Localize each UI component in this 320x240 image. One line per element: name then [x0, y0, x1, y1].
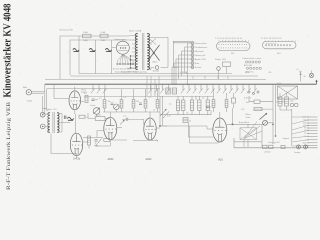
- svg-text:6,3V~: 6,3V~: [245, 72, 251, 74]
- wire T2 taps: [47, 114, 50, 133]
- svg-text:Kinoverstärker KV 4048: Kinoverstärker KV 4048: [2, 3, 14, 97]
- transformer T2 primary: [48, 113, 50, 133]
- resistor R35: [281, 145, 285, 148]
- wire V5 cathode return: [190, 126, 222, 143]
- transformer T1 secondary coil: [147, 34, 149, 70]
- resistor R9: [156, 100, 159, 109]
- capacitor C5: [92, 99, 95, 101]
- resistor R5: [103, 100, 106, 109]
- wire V1 anode right: [81, 101, 84, 103]
- wire T4 bottom: [247, 140, 249, 148]
- cluster small parts left of T3: [248, 91, 250, 93]
- ticks between buses: [193, 76, 228, 79]
- terminal stubs: [308, 117, 318, 146]
- svg-text:50Ω: 50Ω: [84, 40, 88, 42]
- transformer T2 core: [53, 112, 54, 133]
- meter M1: [155, 66, 159, 70]
- svg-text:AD42: AD42: [108, 158, 115, 161]
- resistor R33: [254, 100, 260, 103]
- wire V3 top: [109, 112, 111, 117]
- svg-text:Tonabnehmer: Tonabnehmer: [195, 47, 208, 49]
- node J5: [232, 123, 234, 125]
- resistor R7: [132, 100, 135, 109]
- capacitor C10: [64, 116, 66, 119]
- svg-text:50k: 50k: [136, 101, 139, 103]
- wire V5 right drop: [232, 108, 234, 124]
- resistor R8: [144, 100, 147, 109]
- svg-text:0,3A: 0,3A: [101, 31, 106, 34]
- resistor R1: [83, 34, 92, 38]
- resistor R28: [285, 97, 289, 106]
- svg-text:Netzanschl.: Netzanschl.: [127, 67, 137, 70]
- svg-text:15 16 17 18 19 20 21 22: 15 16 17 18 19 20 21 22: [261, 38, 282, 40]
- capacitor C4: [67, 117, 73, 120]
- svg-text:Netztr. 120VA: Netztr. 120VA: [129, 30, 142, 33]
- svg-text:Anode 250V: Anode 250V: [195, 58, 207, 61]
- diode arrow: [98, 139, 102, 144]
- wire bus B2: [70, 75, 258, 77]
- wire T4 sides: [234, 124, 262, 147]
- wire V1 top: [74, 87, 76, 92]
- svg-text:Dr.Sp.: Dr.Sp.: [277, 82, 283, 85]
- svg-text:Tiefen: Tiefen: [246, 117, 251, 119]
- wire T3 stubs: [273, 84, 276, 99]
- resistor R4: [85, 96, 88, 103]
- wire T2 bottom return: [51, 134, 77, 156]
- svg-text:Schirm: Schirm: [195, 67, 202, 69]
- svg-text:Mikr.: Mikr.: [23, 86, 28, 89]
- svg-text:0,1: 0,1: [124, 116, 127, 118]
- wire R10 right: [105, 118, 109, 120]
- paper speckle texture: [2, 2, 318, 191]
- connector X1: [217, 67, 221, 71]
- tube V5: [213, 118, 227, 142]
- wire R27 R28 stubs: [280, 93, 292, 110]
- resistor R12: [176, 100, 179, 111]
- transformer T1 core: [142, 33, 144, 70]
- svg-text:0,1: 0,1: [169, 104, 172, 106]
- resistor R19: [225, 100, 228, 108]
- selector plug S1 circle: [116, 41, 129, 54]
- wire primary taps: [129, 36, 138, 53]
- svg-text:0,3: 0,3: [84, 93, 87, 95]
- svg-text:0,25: 0,25: [241, 109, 245, 111]
- resistor R17: [183, 118, 188, 123]
- svg-text:60Ω: 60Ω: [101, 40, 105, 42]
- svg-text:0,5: 0,5: [272, 143, 275, 145]
- resistor R30: [269, 145, 274, 148]
- wire bus B5: [47, 88, 160, 90]
- resistor R26: [223, 62, 231, 67]
- svg-text:St.II: St.II: [277, 52, 281, 55]
- svg-text:Vorverstärker: Vorverstärker: [195, 42, 207, 45]
- transformer T4 box: [240, 128, 257, 140]
- wire R10 left: [88, 113, 95, 119]
- svg-text:25k: 25k: [108, 101, 111, 103]
- selector tap pins: [117, 63, 119, 65]
- svg-text:R-F-T Funkwerk Leipzig VEB: R-F-T Funkwerk Leipzig VEB: [6, 101, 12, 190]
- svg-text:AD42: AD42: [146, 158, 153, 161]
- svg-text:0,25: 0,25: [167, 116, 171, 118]
- ticks above St1: [219, 40, 249, 42]
- lamp La1: [309, 73, 313, 77]
- wire rectifier cathode: [149, 37, 178, 69]
- svg-text:0,4A: 0,4A: [83, 31, 88, 34]
- svg-text:Ausg.Übertr.: Ausg.Übertr.: [239, 121, 250, 124]
- svg-text:6,3V 0,3: 6,3V 0,3: [244, 98, 251, 100]
- svg-text:6,3V 4A: 6,3V 4A: [180, 71, 188, 74]
- jack K11: [304, 145, 308, 149]
- wire bus B4 main: [45, 83, 317, 85]
- capacitor C1: [73, 49, 79, 52]
- wire driver verticals: [160, 96, 163, 126]
- resistor R24: [166, 88, 170, 94]
- socket ring row 2: [246, 67, 248, 69]
- svg-text:Tonl.: Tonl.: [246, 102, 250, 104]
- svg-text:Gegenk.: Gegenk.: [283, 138, 290, 140]
- transformer T2 secondary: [57, 113, 59, 133]
- resistor R3: [79, 115, 85, 118]
- svg-text:1k: 1k: [153, 110, 155, 112]
- svg-text:0,1: 0,1: [99, 98, 102, 100]
- terminal strip St2: [263, 41, 297, 48]
- wire V2 bottom: [76, 156, 78, 158]
- wire V4 bottom link: [133, 139, 158, 142]
- wire V3 right: [117, 127, 122, 129]
- svg-text:Lichtton: Lichtton: [264, 150, 271, 153]
- wire selector bottom: [122, 54, 124, 57]
- wire V3 left: [97, 131, 104, 138]
- wire V3 bottom: [95, 140, 110, 146]
- svg-text:Lautspr.: Lautspr.: [294, 151, 301, 154]
- capacitor C3: [105, 49, 111, 52]
- potentiometer P0: [93, 108, 100, 115]
- svg-text:220V 50Hz: 220V 50Hz: [276, 102, 285, 104]
- wire X1 stubs: [219, 67, 227, 80]
- svg-text:AD1: AD1: [218, 159, 223, 162]
- resistor R32: [232, 98, 236, 103]
- potentiometer P1: [114, 104, 120, 110]
- wire cluster links: [249, 96, 273, 123]
- wire V5 anode right: [227, 123, 262, 125]
- wire heater pair: [173, 41, 191, 43]
- wire lower mesh: [83, 138, 103, 149]
- wire drops transformer to row: [147, 76, 159, 96]
- wire T4 top: [247, 124, 249, 128]
- svg-text:50kΩ: 50kΩ: [96, 115, 101, 117]
- wire jack stubs: [45, 111, 48, 127]
- node arrow a: [300, 75, 302, 82]
- svg-text:Lautst.: Lautst.: [90, 104, 96, 107]
- svg-text:AZ12 AD1: AZ12 AD1: [244, 64, 252, 67]
- resistor R13: [182, 100, 185, 111]
- wire bottom line: [234, 138, 318, 148]
- transformer T1 primary coil: [135, 34, 137, 70]
- wire V5 top: [219, 112, 221, 118]
- wire selector top: [122, 40, 124, 41]
- tube V3: [104, 117, 117, 139]
- svg-text:Netzanschluß: Netzanschluß: [60, 29, 74, 32]
- svg-text:Röhrensockel v. unten: Röhrensockel v. unten: [243, 57, 262, 60]
- wire V2 right: [83, 141, 88, 143]
- resistor R16: [206, 100, 209, 111]
- svg-text:Höhen: Höhen: [246, 114, 251, 116]
- wire P0 stub: [96, 114, 98, 116]
- wire secondary top: [149, 36, 168, 38]
- wire terminal bus: [291, 109, 293, 146]
- resistor R34: [254, 108, 262, 111]
- rotary switch fan: [244, 122, 262, 148]
- svg-text:2k: 2k: [189, 121, 191, 123]
- capacitor C8: [95, 140, 98, 142]
- svg-text:Spannungsw.: Spannungsw.: [115, 39, 127, 41]
- jack Tonabnehmer 2: [40, 124, 45, 129]
- resistor R6: [120, 100, 123, 109]
- svg-text:Übertr. 1:10: Übertr. 1:10: [47, 108, 57, 111]
- capacitor C6: [111, 103, 114, 105]
- jack Tonabnehmer 1: [40, 112, 45, 117]
- wire driver mesh: [160, 96, 213, 137]
- wire feed drop 3: [111, 40, 113, 74]
- socket ring row 1: [245, 61, 247, 63]
- node J6: [159, 125, 161, 127]
- wire selector fan: [118, 54, 134, 60]
- wire row bottom rail: [103, 111, 160, 113]
- switch arm: [260, 114, 267, 120]
- bus arrow end: [315, 80, 317, 82]
- resistor R15: [198, 100, 201, 111]
- wire feed drop 1: [78, 36, 80, 74]
- tube V1: [69, 91, 81, 110]
- potentiometer P3: [263, 120, 268, 125]
- svg-text:Feldsp. 110V: Feldsp. 110V: [215, 59, 227, 61]
- connector K8: [290, 103, 294, 107]
- resistor R25: [172, 88, 176, 94]
- resistor R14: [190, 100, 193, 111]
- wire V1 to V2: [75, 114, 77, 133]
- svg-text:0,5: 0,5: [202, 98, 205, 100]
- wire input verticals: [43, 84, 47, 114]
- svg-text:0,1: 0,1: [149, 97, 152, 99]
- wire center double vertical: [273, 99, 276, 142]
- wire P1 stub: [115, 110, 117, 112]
- transformer T3 box: [278, 86, 298, 99]
- potentiometer arrows: [160, 110, 169, 119]
- wire connector drops: [188, 43, 192, 85]
- connector K9: [295, 103, 299, 107]
- rectifier V6 cross: [148, 45, 160, 61]
- svg-text:m m m m m m: m m m m m m: [266, 43, 277, 45]
- resistor R18: [212, 100, 215, 108]
- wire V4 top: [149, 112, 151, 118]
- svg-text:Entbrummer Gegenkopplung: Entbrummer Gegenkopplung: [121, 71, 147, 74]
- svg-text:Erde: Erde: [303, 143, 307, 145]
- wire V1 bottom: [74, 110, 76, 114]
- svg-text:AD1: AD1: [206, 106, 211, 109]
- jack K10: [297, 145, 301, 149]
- svg-text:5k: 5k: [187, 113, 189, 115]
- connector column K1-K7: [191, 42, 194, 45]
- wire feed drop 2: [94, 40, 96, 74]
- switch contact row: [91, 84, 257, 93]
- diode arrow 2: [120, 121, 124, 125]
- wire top rail 2: [70, 40, 129, 75]
- resistor R2: [100, 34, 108, 38]
- wire terminal fan: [292, 117, 308, 146]
- capacitor C9: [126, 118, 128, 121]
- resistor R10: [95, 117, 105, 121]
- resistor R29: [263, 145, 268, 148]
- tube V2: [70, 133, 82, 156]
- wire top rail 1: [60, 36, 129, 79]
- wire grid feed y126: [163, 126, 214, 129]
- wire selector left: [112, 47, 117, 49]
- svg-text:300mA: 300mA: [153, 70, 160, 73]
- wire V1 grid left: [54, 84, 69, 98]
- wire T2 to V2 grid: [62, 122, 70, 124]
- capacitor C7: [139, 103, 142, 105]
- wire bus B3: [45, 78, 266, 80]
- capacitor C2: [89, 49, 95, 52]
- resistor R31: [104, 139, 110, 142]
- svg-text:Heizung 4V: Heizung 4V: [195, 55, 206, 57]
- wire bus B1: [79, 73, 232, 75]
- resistor R11: [88, 136, 91, 145]
- wire heater rail: [84, 96, 214, 98]
- ticks above St2: [266, 40, 296, 42]
- svg-text:0,5: 0,5: [124, 97, 127, 99]
- jack Mikrofon: [26, 90, 31, 95]
- tube V4: [144, 118, 156, 140]
- svg-text:200Ω: 200Ω: [27, 101, 32, 103]
- wire V4 right: [156, 127, 160, 129]
- terminal strip St1: [217, 42, 251, 51]
- resistor R27: [278, 97, 282, 106]
- svg-text:2×F2a: 2×F2a: [73, 158, 81, 161]
